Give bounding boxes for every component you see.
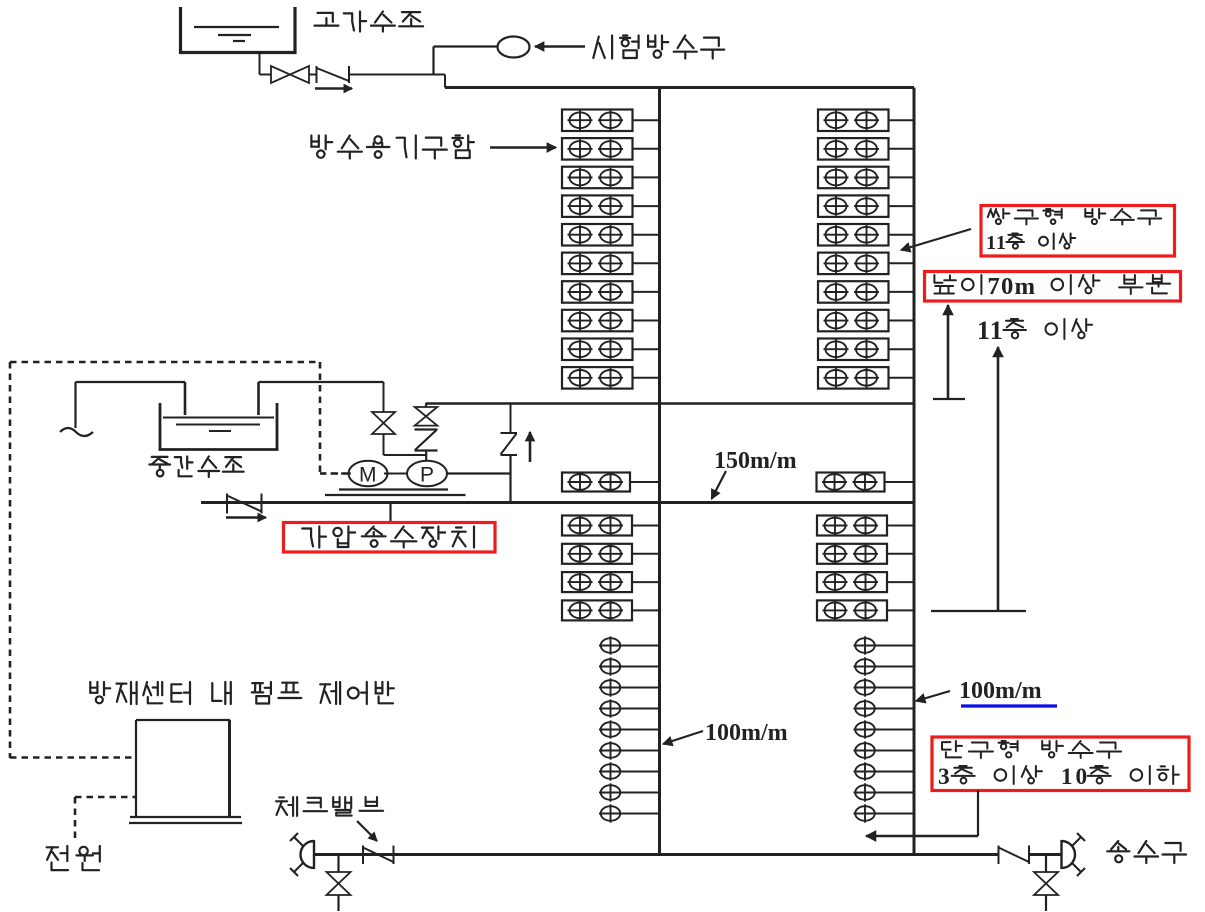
- svg-text:150m/m: 150m/m: [714, 448, 797, 474]
- single outlet row 9 left: [599, 804, 660, 822]
- overflow pipe + drain: [60, 382, 185, 436]
- dashed control to motor: [320, 472, 345, 474]
- wire to test outlet: [349, 47, 498, 75]
- arrow 11F span: [931, 347, 1026, 611]
- hose box row 2 left: [562, 138, 660, 160]
- red box 높이70m 이상 부분: [925, 272, 1181, 302]
- hose box mid-row left: [562, 472, 660, 492]
- up arrow beside check: [526, 432, 535, 462]
- discharge valve: [415, 404, 438, 426]
- hose box row 9 right: [818, 339, 914, 361]
- foot check valve on main line: [227, 494, 262, 514]
- pump outlet right: [447, 472, 511, 474]
- hose box row 2 right: [818, 138, 914, 160]
- svg-text:11: 11: [977, 316, 1003, 345]
- siamese inlet left: [290, 833, 314, 876]
- hose box row 6 left: [562, 253, 660, 275]
- main feed line: [201, 501, 914, 504]
- single outlet row 3 right: [854, 678, 915, 696]
- single outlet row 7 right: [854, 762, 915, 780]
- hose box lower row 2 left: [562, 544, 660, 564]
- flexible joint: [415, 430, 438, 462]
- flow arrow right: [315, 84, 352, 92]
- label 중간수조: [149, 457, 243, 478]
- single outlet row 6 right: [854, 741, 915, 759]
- top header pipe: [445, 75, 914, 88]
- single outlet row 5 left: [599, 720, 660, 738]
- stem to label: [389, 503, 391, 523]
- red box 가압송수장치: [284, 523, 496, 553]
- hose box lower row 1 left: [562, 516, 660, 536]
- hose box lower row 3 left: [562, 572, 660, 592]
- arrow to hose box: [490, 143, 556, 152]
- single outlet row 4 left: [599, 699, 660, 717]
- single outlet row 2 left: [599, 657, 660, 675]
- hose box row 9 left: [562, 339, 660, 361]
- single outlet row 8 right: [854, 783, 915, 801]
- motor M: [343, 461, 390, 487]
- red box 쌍구형 방수구 11층 이상: [981, 206, 1175, 257]
- pump discharge header: [426, 402, 915, 405]
- hose box row 4 right: [818, 195, 914, 217]
- label 송수구: [1107, 841, 1186, 863]
- test outlet 시험방수구: [498, 37, 530, 58]
- arrow to check valve: [357, 821, 377, 841]
- control panel box: [129, 720, 242, 823]
- hose box row 5 left: [562, 224, 660, 246]
- gate valve: [271, 66, 309, 83]
- arrow to test outlet: [535, 42, 585, 51]
- check valve riser (swing): [501, 404, 518, 503]
- intermediate tank 중간수조: [159, 403, 279, 450]
- single outlet row 4 right: [854, 699, 915, 717]
- label 방수용기구함: [311, 136, 474, 159]
- svg-text:3: 3: [938, 764, 950, 790]
- single outlet row 6 left: [599, 741, 660, 759]
- hose box row 8 left: [562, 310, 660, 332]
- single outlet row 9 right: [854, 804, 915, 822]
- check valve (top): [317, 66, 350, 83]
- flow arrow: [226, 513, 266, 521]
- shaft M-P: [386, 473, 408, 475]
- wire valve to check: [309, 74, 317, 76]
- single outlet row 1 left: [599, 636, 660, 654]
- svg-text:100m/m: 100m/m: [705, 720, 788, 746]
- hose box row 3 left: [562, 167, 660, 189]
- hose box mid-row right: [817, 472, 915, 492]
- pump P: [407, 461, 447, 487]
- single outlet row 2 right: [854, 657, 915, 675]
- arrow from 단구형 box: [866, 791, 978, 842]
- drain tee right: [1034, 855, 1058, 912]
- hose box lower row 2 right: [817, 544, 914, 564]
- hose box row 6 right: [818, 253, 914, 275]
- riser right (100mm): [913, 88, 916, 856]
- single outlet row 7 left: [599, 762, 660, 780]
- pump base: [325, 490, 466, 496]
- elevated tank 고가수조: [179, 7, 297, 54]
- blue underline: [961, 704, 1057, 707]
- bottom supply main: [314, 853, 1062, 856]
- hose box row 5 right: [818, 224, 914, 246]
- hose box row 4 left: [562, 195, 660, 217]
- svg-text:100m/m: 100m/m: [959, 678, 1042, 704]
- single outlet row 3 left: [599, 678, 660, 696]
- svg-text:70m: 70m: [987, 273, 1035, 300]
- svg-text:11: 11: [986, 232, 1006, 254]
- pipe from tank: [260, 54, 272, 75]
- label 고가수조: [315, 12, 424, 32]
- hose box row 1 left: [562, 110, 660, 132]
- arrow to twin outlet: [901, 229, 971, 252]
- arrow 100m/m right: [916, 691, 950, 703]
- svg-text:M: M: [359, 464, 377, 487]
- label 11층 이상: [977, 316, 1092, 345]
- suction valve: [372, 382, 426, 455]
- siamese inlet right 송수구: [1062, 833, 1086, 876]
- riser left (150mm): [658, 88, 661, 856]
- hose box row 1 right: [818, 110, 914, 132]
- hose box lower row 4 left: [562, 600, 660, 620]
- dashed to panel: [10, 756, 136, 759]
- dashed control line boundary: [10, 362, 348, 758]
- svg-text:P: P: [420, 464, 434, 487]
- hose box row 7 left: [562, 281, 660, 303]
- single outlet row 1 right: [854, 636, 915, 654]
- check valve bottom left: [363, 846, 394, 865]
- hose box row 10 right: [818, 367, 914, 389]
- hose box lower row 3 right: [817, 572, 914, 592]
- label 체크밸브: [276, 797, 383, 816]
- arrow 150m/m: [712, 471, 727, 499]
- label 방재센터 내 펌프 제어반: [90, 682, 394, 704]
- single outlet row 5 right: [854, 720, 915, 738]
- hose box lower row 4 right: [817, 600, 914, 620]
- hose box row 7 right: [818, 281, 914, 303]
- hose box lower row 1 right: [817, 516, 914, 536]
- check valve bottom right: [999, 846, 1030, 865]
- drain tee left: [327, 855, 351, 912]
- arrow 70m span: [933, 305, 965, 399]
- hose box row 10 left: [562, 367, 660, 389]
- single outlet row 8 left: [599, 783, 660, 801]
- hose box row 8 right: [818, 310, 914, 332]
- arrow 100m/m left: [663, 731, 703, 746]
- hose box row 3 right: [818, 167, 914, 189]
- label 시험방수구: [593, 36, 724, 59]
- red box 단구형 방수구 3층이상 10층이하: [932, 737, 1189, 791]
- label 전원: [47, 846, 100, 870]
- dashed power line: [75, 797, 136, 839]
- suction pipe from tank: [259, 382, 384, 415]
